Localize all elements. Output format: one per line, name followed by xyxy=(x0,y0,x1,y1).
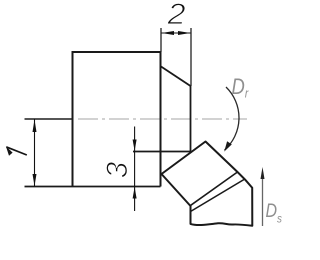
dim 2 left arrow xyxy=(162,31,175,35)
chamfer (cone generatrix) xyxy=(161,67,191,87)
dim 3 dimension line xyxy=(134,127,136,212)
step line (bottom of turned section, with extension to dim 3) xyxy=(133,151,191,153)
cutting tool body xyxy=(162,142,253,226)
centerline (workpiece axis) xyxy=(78,118,247,120)
Ds label xyxy=(266,200,283,226)
dim 2 dimension line xyxy=(162,32,191,34)
Ds feed arrow line xyxy=(262,172,264,226)
Dr rotation arc xyxy=(225,87,239,150)
dim 1 label "1" xyxy=(6,147,26,155)
svg-text:3: 3 xyxy=(101,161,134,178)
dim 2 right arrow xyxy=(178,31,191,35)
right end face edge xyxy=(190,86,192,152)
dim 3 bottom arrow (outside, pointing up) xyxy=(133,187,137,199)
dim 1 bottom arrow xyxy=(33,174,37,186)
dim 3 top arrow (outside, pointing down) xyxy=(133,140,137,152)
insert line 1 (cutting plate upper edge) xyxy=(190,172,238,206)
insert line 2 (cutting plate lower edge) xyxy=(191,180,245,212)
dim 2 right extension line xyxy=(190,28,192,86)
workpiece bottom edge (with left extension) xyxy=(25,186,161,188)
svg-text:2: 2 xyxy=(166,0,185,31)
dim 2 label "2" xyxy=(166,0,185,31)
Dr arrowhead xyxy=(224,141,232,151)
Ds arrowhead xyxy=(261,167,265,179)
dim 1 top arrow xyxy=(33,120,37,133)
workpiece main cylinder outline xyxy=(73,52,161,187)
Dr label xyxy=(232,74,250,100)
dim 2 left extension line xyxy=(160,28,162,52)
dim 1 top extension line xyxy=(25,118,73,120)
dim 1 dimension line xyxy=(34,119,36,187)
